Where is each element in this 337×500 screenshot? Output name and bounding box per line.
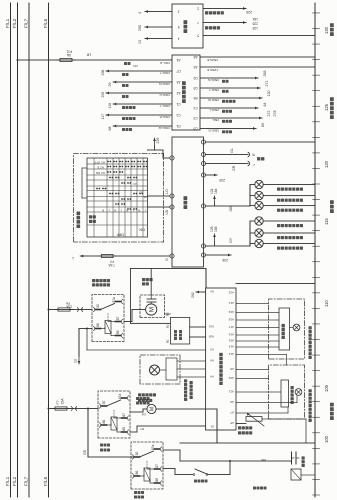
svg-text:HZ OFF: HZ OFF (94, 160, 105, 164)
blower capacitor (147, 301, 156, 303)
temp servo motor (295, 389, 302, 396)
svg-text:F/L2: F/L2 (12, 476, 17, 486)
decoder ground wire pin5 (203, 35, 315, 37)
recorder wire 030G.B to 117 (105, 114, 107, 116)
svg-text:F/L2: F/L2 (12, 18, 17, 28)
svg-text:A20: A20 (208, 335, 214, 339)
svg-text:A5: A5 (193, 65, 197, 69)
svg-text:120: 120 (324, 160, 329, 168)
svg-text:M: M (149, 307, 156, 312)
compressor clutch (291, 452, 293, 464)
svg-text:GR: GR (232, 165, 236, 171)
svg-text:GR: GR (83, 449, 87, 455)
relay label kongtiao nuanfeng dianji jidianqi (92, 283, 95, 286)
mode switch box zhuanhuankaiguan (279, 308, 290, 350)
svg-text:A14: A14 (228, 345, 234, 349)
lamp side-right label (277, 236, 280, 239)
temp sensor label wenduchuanganqi (291, 401, 294, 404)
recirc servo label neiwaixunhuan (138, 399, 141, 402)
flasher label pins top (170, 254, 174, 258)
trailer label guache (257, 157, 260, 160)
svg-text:165: 165 (214, 226, 218, 232)
relay condenser pin 87 (122, 417, 127, 419)
relay compressor pin 87 (155, 468, 160, 470)
svg-text:13: 13 (74, 359, 78, 363)
AC box ground wire (236, 283, 315, 285)
svg-text:115: 115 (324, 218, 329, 225)
svg-text:HZ ON: HZ ON (96, 171, 105, 175)
svg-text:30: 30 (102, 401, 106, 405)
svg-text:30: 30 (135, 452, 139, 456)
flasher box shanguangqi (172, 137, 204, 267)
section label shanguangqi (330, 209, 334, 213)
svg-text:A5: A5 (230, 421, 234, 425)
decoder top wire to 13 (144, 38, 146, 40)
svg-text:L: L (252, 164, 256, 166)
decoder top wire to 255 (144, 26, 146, 28)
section label kongtiao-xitong (330, 416, 334, 420)
svg-text:R: R (252, 153, 256, 156)
mode servo motor (293, 324, 300, 331)
svg-text:235: 235 (219, 178, 225, 182)
svg-text:130: 130 (324, 26, 329, 34)
svg-text:G: G (165, 258, 169, 261)
branch arrow 125 165 (214, 242, 216, 246)
bus line F/L6 (48, 3, 50, 497)
relay condenser pin 85 (122, 431, 127, 433)
svg-text:030R.W: 030R.W (159, 82, 170, 86)
wire from F/L6 through fuse F7 (49, 408, 99, 410)
relay F8-AC pin 30 (96, 309, 101, 311)
fuse F7 15A (55, 407, 67, 410)
svg-text:A9: A9 (230, 400, 234, 404)
svg-text:F8: F8 (66, 301, 70, 305)
svg-text:C2: C2 (176, 113, 180, 117)
wire A12 to temp servo (236, 354, 287, 356)
bus line F/L1 (10, 3, 12, 497)
svg-text:A16: A16 (228, 333, 234, 337)
evaporator temp sensor thermistor (246, 417, 262, 422)
svg-text:6: 6 (178, 25, 180, 29)
recirc servo resistor (166, 358, 177, 380)
svg-text:69: 69 (261, 123, 265, 127)
svg-text:87a: 87a (112, 297, 116, 303)
svg-text:229: 229 (156, 138, 160, 144)
fuse F31 5A (60, 58, 72, 61)
relay condenser contact blade (107, 400, 121, 406)
fuse F3 7.5A (102, 254, 114, 257)
wire module to A20 (190, 336, 206, 338)
table bracket jumper (81, 168, 83, 198)
wire A9 to motor (236, 402, 297, 404)
relay F8-AC pin 87 (116, 321, 121, 323)
svg-text:1: 1 (178, 9, 180, 13)
svg-text:D5: D5 (193, 126, 197, 130)
temp servo dash-dot box (269, 365, 305, 419)
compressor ground (301, 474, 315, 476)
flasher feed wire from fuse F3 with arrow 1 (79, 255, 81, 257)
blower label (142, 282, 145, 285)
connector on F8 wire (77, 308, 78, 312)
svg-text:A7: A7 (230, 411, 234, 415)
turn lamp rear-left (250, 205, 255, 207)
wire A4 from servo (177, 376, 206, 378)
svg-text:85: 85 (116, 330, 120, 334)
svg-text:030G.B: 030G.B (160, 115, 171, 119)
svg-text:7: 7 (197, 20, 199, 24)
bus line F/L2 (17, 3, 19, 497)
AC box label (219, 382, 223, 386)
svg-text:050L: 050L (212, 118, 219, 122)
svg-text:LB: LB (143, 195, 147, 199)
ground-ruler border line (314, 3, 316, 497)
fuse F8 15A (58, 308, 70, 311)
svg-text:7.5A: 7.5A (108, 263, 115, 267)
relay compressor contact blade (140, 451, 154, 457)
blower motor gufengdianji (146, 304, 157, 315)
recorder wire 050L to 272 (200, 117, 262, 119)
svg-text:236: 236 (222, 258, 228, 262)
svg-text:D3: D3 (193, 86, 197, 90)
recorder wire 030R.G to 292 (105, 92, 107, 94)
condenser fan motor (130, 411, 143, 413)
svg-text:F/L6: F/L6 (43, 18, 48, 28)
recorder ground wire 125W.B (200, 66, 315, 68)
blower motor dashed box (140, 295, 165, 318)
svg-text:164: 164 (214, 188, 218, 194)
wire relayB 87a to compressor (163, 449, 180, 451)
lamp side-left ground wire (263, 195, 315, 197)
svg-text:030R.G: 030R.G (159, 93, 170, 97)
evaporator sensor ground path (262, 418, 306, 420)
wires A8 A10 to temp servo (236, 369, 269, 371)
wire A7 (236, 412, 288, 414)
recorder box xingshijiluyi (172, 55, 200, 130)
recorder wire 030R.W to 29 (112, 81, 114, 83)
recorder wire 030G.W to 58 (112, 125, 114, 127)
wire module to A21 (190, 326, 206, 328)
svg-text:B: B (138, 209, 140, 213)
recirc servo dash-dot box (140, 355, 180, 384)
blower signal wire to control box (150, 269, 152, 296)
svg-text:F/L6: F/L6 (43, 476, 48, 486)
svg-text:A3: A3 (210, 348, 214, 352)
svg-text:117: 117 (101, 114, 105, 120)
svg-text:LB: LB (165, 210, 169, 215)
ruler ticks (313, 494, 320, 496)
svg-text:B: B (114, 209, 116, 213)
svg-text:130: 130 (267, 91, 271, 97)
svg-text:GY: GY (229, 237, 233, 243)
svg-text:110: 110 (324, 300, 329, 307)
svg-text:164: 164 (252, 17, 258, 21)
flasher wire to 235 (206, 174, 218, 176)
svg-text:4: 4 (138, 12, 142, 14)
relay F8-AC pin 85 (116, 335, 121, 337)
lamp front-left ground wire (263, 184, 315, 186)
wire relay87 to blower (124, 321, 132, 323)
relay F8-AC pin 87a (116, 301, 121, 303)
svg-text:050R.L: 050R.L (209, 108, 219, 112)
svg-text:125W.B: 125W.B (207, 68, 218, 72)
svg-text:F31: F31 (66, 50, 72, 54)
relay condenser box (98, 391, 130, 438)
svg-text:A2: A2 (176, 91, 180, 95)
svg-text:BY: BY (140, 427, 144, 431)
svg-text:296: 296 (101, 70, 105, 76)
wire A11 to resistor (236, 391, 281, 393)
svg-text:A22: A22 (228, 291, 234, 295)
turn lamp front-right (250, 220, 255, 222)
svg-text:C4: C4 (193, 106, 197, 110)
lamp side-left label (277, 199, 280, 202)
wire from F/L6 through fuse F8 (49, 309, 93, 311)
svg-text:A21: A21 (208, 325, 214, 329)
wire motor to box (290, 327, 294, 329)
turn lamp side-right (250, 232, 255, 234)
relay F8-AC box (92, 295, 124, 342)
svg-text:A1: A1 (176, 58, 180, 62)
lamp front-right ground wire (263, 220, 315, 222)
svg-text:265: 265 (263, 71, 267, 77)
relay F8-AC contact blade (101, 304, 115, 310)
svg-text:A17: A17 (228, 325, 234, 329)
wire A6 from servo (177, 360, 206, 362)
condenser fan ground (156, 408, 217, 410)
wire servo internal (160, 369, 167, 371)
svg-text:M: M (150, 407, 156, 411)
svg-text:050W.B: 050W.B (207, 58, 218, 62)
svg-text:105: 105 (324, 384, 329, 392)
svg-text:13: 13 (138, 40, 142, 44)
svg-text:B2: B2 (166, 324, 170, 328)
lamp rear-left ground wire (263, 205, 315, 207)
svg-text:030R.Y: 030R.Y (160, 71, 170, 75)
relay condenser pin 87a (122, 397, 127, 399)
relay condenser pin 30 (102, 405, 107, 407)
flasher trailer wire GR (206, 163, 249, 165)
svg-text:272: 272 (267, 111, 271, 117)
svg-text:225: 225 (246, 10, 252, 14)
recorder wire 050G.R to 69 (200, 128, 256, 130)
svg-text:D1: D1 (176, 124, 180, 128)
lamp front-left label (277, 188, 280, 191)
svg-text:B3: B3 (193, 96, 197, 100)
relay condenser pin 86 (102, 424, 107, 426)
relay compressor pin 86 (135, 475, 140, 477)
svg-text:255: 255 (138, 25, 142, 31)
decoder box yimaqi (172, 4, 203, 48)
svg-text:1: 1 (72, 256, 74, 260)
relay compressor coil (144, 468, 150, 481)
svg-text:87a: 87a (118, 393, 122, 399)
svg-text:86: 86 (102, 420, 106, 424)
svg-text:86: 86 (96, 323, 100, 327)
wire GB to left lamps (206, 205, 251, 207)
svg-text:271: 271 (265, 81, 269, 87)
svg-text:87: 87 (155, 464, 159, 468)
svg-text:030G.Y: 030G.Y (160, 104, 171, 108)
recorder wire 050R.Y to 271 (200, 87, 260, 89)
svg-text:A19: A19 (228, 310, 234, 314)
svg-text:OFF: OFF (116, 233, 124, 237)
svg-text:A6: A6 (193, 55, 197, 59)
svg-text:29: 29 (108, 83, 112, 87)
svg-text:A1: A1 (210, 425, 214, 429)
svg-text:64: 64 (263, 103, 267, 107)
flasher ground wire (206, 141, 316, 143)
svg-text:030G.W: 030G.W (159, 126, 170, 130)
branch arrow 124 164 (214, 204, 216, 206)
svg-text:292: 292 (101, 92, 105, 98)
recorder power wire 030L.R from F/L2 (18, 59, 173, 61)
combination switch table (87, 158, 148, 237)
compressor relay label yasuoji jidianqi (134, 496, 137, 499)
combination switch dash-dot box (74, 154, 164, 242)
branch wire GR to compressor relay (87, 409, 89, 458)
wire pressure switch join GB (229, 461, 231, 475)
wire from hazard switch to 229 (148, 149, 164, 151)
recorder ground wire 050W.B (200, 56, 315, 58)
recorder wire 050R.L to 64 (200, 107, 258, 109)
decoder top wire to 4 (144, 11, 146, 13)
connector on F7 wire (71, 407, 72, 411)
wire 13 branch (79, 328, 92, 330)
recorder wire 050R.W to 265 (200, 77, 258, 79)
relay F8-AC pin 86 (96, 328, 101, 330)
recirc servo motor (150, 365, 160, 375)
wire blower box to module (165, 313, 171, 315)
svg-text:F/L1: F/L1 (5, 476, 10, 486)
wire A2 to 292 (195, 291, 197, 293)
section label xingshijiluyi (330, 115, 334, 119)
svg-text:B: B (102, 209, 104, 213)
bus line F/L7 (28, 3, 30, 497)
svg-text:278: 278 (273, 111, 277, 117)
wire relayA 85 to A1 (130, 431, 137, 433)
svg-text:050G.R: 050G.R (208, 129, 219, 133)
turn lamp rear-right (250, 243, 255, 245)
svg-text:GL: GL (230, 148, 234, 153)
svg-text:F/L7: F/L7 (24, 476, 29, 486)
relay compressor pin 85 (155, 482, 160, 484)
decoder wire to 225 zhudongfengmingqi (203, 8, 246, 10)
svg-text:A11: A11 (229, 390, 234, 394)
svg-text:A15: A15 (228, 339, 234, 343)
evaporator sensor label zhengfaqi (238, 431, 241, 434)
svg-text:86: 86 (135, 471, 139, 475)
note quanche (253, 487, 256, 490)
condenser relay label lengningqi jidianqi (100, 449, 103, 452)
pressure switch yalikaiguan (163, 468, 175, 470)
svg-text:050R.Y: 050R.Y (209, 88, 219, 92)
svg-text:85: 85 (122, 427, 126, 431)
svg-text:125: 125 (252, 26, 258, 30)
temp servo label lengnuan (309, 419, 312, 422)
svg-text:30: 30 (96, 304, 100, 308)
evaporator sensor wire from A5 (236, 423, 246, 425)
svg-text:A8: A8 (230, 367, 234, 371)
svg-text:HZ E: HZ E (97, 165, 104, 169)
wire GY to right lamps (206, 245, 251, 247)
lamp rear-right label (277, 247, 280, 250)
relay compressor box (131, 442, 163, 489)
svg-text:87: 87 (122, 413, 126, 417)
svg-text:5: 5 (197, 33, 199, 37)
svg-text:125: 125 (324, 103, 329, 111)
recorder wire 030G.Y to 115 (112, 103, 114, 105)
wire LO flasher to switch (148, 195, 171, 197)
svg-text:A12: A12 (228, 352, 234, 356)
svg-text:85: 85 (155, 478, 159, 482)
svg-text:GB: GB (229, 206, 233, 212)
relay compressor coil wires (140, 475, 145, 477)
svg-text:B1: B1 (166, 339, 170, 343)
svg-text:C1: C1 (176, 102, 180, 106)
temp sensor resistor box (281, 380, 289, 407)
wire relay86 to A3 (86, 328, 88, 330)
relay F8-AC coil wires (101, 328, 106, 330)
relay F8-AC coil (105, 321, 111, 334)
svg-text:D7: D7 (176, 69, 180, 73)
svg-text:A10: A10 (228, 376, 234, 380)
combination switch label zuhekaiguan (77, 224, 81, 228)
svg-text:GB: GB (261, 458, 266, 462)
compressor coil (291, 469, 301, 480)
svg-text:A2: A2 (210, 290, 214, 294)
svg-text:030L.R: 030L.R (159, 61, 170, 65)
svg-text:A3: A3 (176, 80, 180, 84)
svg-text:226: 226 (252, 22, 258, 26)
recorder wire 030R.Y to 296 (105, 70, 107, 72)
turn lamp side-left (250, 195, 255, 197)
recorder wire 050B.W to 130 (200, 97, 262, 99)
svg-text:F/L7: F/L7 (24, 18, 29, 28)
svg-text:LW: LW (142, 412, 146, 416)
speed module B1 box (170, 317, 189, 344)
compressor label yasuoji (302, 464, 305, 467)
svg-text:F/L1: F/L1 (5, 18, 10, 28)
flasher pins bottom (201, 253, 205, 257)
AC control box kongtiao dianzi kongzhi kaiguan (206, 288, 236, 430)
table contact dots (107, 161, 109, 163)
svg-text:C3: C3 (193, 116, 197, 120)
relay condenser coil (111, 417, 117, 430)
svg-text:87: 87 (116, 316, 120, 320)
svg-text:050B.W: 050B.W (208, 98, 219, 102)
relay condenser coil wires (107, 424, 112, 426)
svg-text:87a: 87a (151, 444, 155, 450)
svg-text:LO: LO (165, 189, 169, 194)
svg-text:58: 58 (108, 127, 112, 131)
svg-text:24V: 24V (133, 64, 138, 68)
svg-text:115: 115 (108, 103, 112, 109)
turn lamp front-left (250, 184, 255, 186)
decoder wire to 125/226/164 lichengbiao (203, 22, 246, 24)
condenser fan label (136, 402, 139, 405)
wires A19-A14 to mode switch (236, 312, 279, 314)
svg-text:2: 2 (197, 6, 199, 10)
lamp rear-left label (277, 209, 280, 212)
svg-text:A6: A6 (210, 359, 214, 363)
section label yimaqi (330, 32, 334, 36)
svg-text:100: 100 (324, 435, 329, 443)
wire A13 to servo (236, 303, 269, 305)
flasher trailer wire GL (206, 154, 249, 156)
svg-text:D2: D2 (193, 76, 197, 80)
lamp side-right ground wire (263, 232, 315, 234)
svg-text:4: 4 (178, 36, 180, 40)
